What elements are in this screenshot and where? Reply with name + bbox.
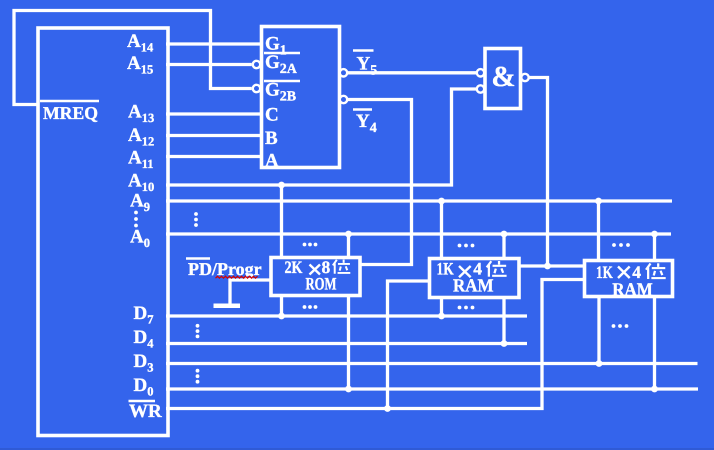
wire Y5 to AND gate upper input [348, 71, 476, 74]
svg-text:C: C [265, 105, 279, 126]
label PD overline [186, 257, 210, 259]
junction A0-RAM2 [651, 231, 658, 238]
wire RAM2 A0 tap [653, 234, 656, 261]
wire RAM2 D0 tap [653, 296, 656, 389]
wire RAM1 D4 tap [502, 297, 505, 344]
RAM1 block [430, 259, 520, 298]
label RAM1 times sign [459, 266, 471, 277]
svg-text:ROM: ROM [306, 274, 337, 294]
wire D4 bus line [166, 342, 527, 345]
label MREQ overline [40, 100, 99, 103]
decoder U2 74LS138 [262, 27, 340, 168]
wire MREQ loop CPU to G2B [14, 11, 252, 105]
bubble Y4 [340, 96, 347, 103]
label RAM2 times sign [618, 267, 630, 279]
svg-text:RAM: RAM [612, 280, 653, 300]
svg-text:2K: 2K [285, 257, 303, 277]
bubble Y5 [340, 69, 347, 76]
wire ROM D0 tap [347, 295, 350, 389]
wire ROM D7 tap [280, 295, 283, 316]
ellipsis above RAM1 [458, 244, 475, 248]
label ROM times sign [310, 265, 321, 275]
wire RAM1 A0 tap [502, 234, 505, 259]
ellipsis below ROM [303, 305, 318, 309]
ellipsis A9-A0 bus [194, 212, 198, 227]
wire A12 to B [166, 134, 262, 137]
ellipsis above ROM [303, 243, 318, 247]
wire A10 line to AND gate lower input [166, 89, 476, 185]
bubble AND in1 [477, 69, 484, 76]
wire ROM A10 tap [280, 185, 283, 258]
ROM block [271, 258, 360, 296]
junction WR-RAM1 [384, 405, 391, 412]
wire A11 to A [166, 155, 262, 158]
svg-text:PD/Progr: PD/Progr [188, 259, 262, 279]
wire WR to RAM2 left pin [166, 280, 584, 409]
svg-text:WR: WR [129, 401, 162, 422]
CPU block [38, 28, 168, 436]
ellipsis A9-A0 inside CPU [134, 211, 138, 228]
junction A9-RAM2 [595, 198, 602, 205]
label RAM2 wei [646, 263, 666, 279]
wire ROM A0 tap [347, 234, 350, 258]
svg-text:A: A [265, 151, 279, 172]
svg-text:B: B [265, 128, 278, 149]
junction D4-RAM1 [501, 340, 508, 347]
junction CS tee [544, 263, 551, 270]
wire RAM2 A9 tap [597, 201, 600, 261]
svg-text:RAM: RAM [453, 276, 494, 296]
wire D0 bus line [166, 387, 698, 390]
wire RAM2 D3 tap [597, 296, 600, 364]
wire PD/Progr to ground [230, 280, 271, 304]
ground bar [214, 304, 241, 309]
bubble AND in2 [477, 85, 484, 92]
wire RAM1 WR pin [388, 281, 430, 409]
label Y4 overline [353, 108, 372, 111]
ellipsis above RAM2 [612, 243, 630, 247]
bottom edge dark strip [0, 448, 714, 450]
junction A0-ROM [345, 231, 352, 238]
wire A14 to G1 [166, 42, 262, 45]
wire AND output to RAM selects [519, 78, 548, 267]
decoder pin label G2B overline [264, 80, 300, 82]
wire RAM1 A9 tap [440, 201, 443, 259]
svg-text:MREQ: MREQ [43, 103, 98, 123]
wire A0 bus line [166, 232, 671, 235]
AND gate U3 [485, 49, 521, 109]
ellipsis below RAM2 [612, 324, 629, 328]
label Y5 overline [353, 49, 374, 52]
junction A9-RAM1 [438, 198, 445, 205]
svg-text:1K: 1K [437, 259, 454, 279]
junction D0-ROM [345, 386, 352, 393]
junction A10-ROM [278, 182, 285, 189]
svg-text:1K: 1K [596, 262, 613, 282]
label RAM1 wei [487, 261, 507, 277]
wire D3 bus line [166, 362, 698, 365]
junction D7-ROM [278, 313, 285, 320]
svg-text:&: & [491, 61, 515, 93]
junction D3-RAM2 [596, 360, 603, 367]
red wavy underline [216, 276, 258, 278]
junction D0-RAM2 [651, 386, 658, 393]
junction D7-RAM1 [438, 313, 445, 320]
svg-text:4: 4 [632, 262, 641, 282]
wire A9 bus line [166, 199, 672, 202]
decoder pin label G2A overline [264, 52, 300, 54]
ellipsis below RAM1 [458, 306, 475, 310]
ellipsis D7-D4 bus [196, 324, 200, 338]
label ROM wei [333, 260, 350, 274]
RAM2 block [585, 261, 673, 297]
bubble G2A [253, 61, 260, 68]
bubble AND out [521, 74, 528, 81]
ellipsis D3-D0 bus [196, 369, 200, 384]
wire A13 to C [166, 112, 262, 115]
wire D7 bus line [166, 314, 527, 317]
wire Y4 to ROM select [348, 100, 412, 265]
bubble G2B [253, 85, 260, 92]
wire RAM1 CS to RAM2 CS [548, 264, 585, 267]
pin label WR overline [129, 400, 156, 403]
junction A0-RAM1 [501, 231, 508, 238]
wire A15 to G2A bubble [166, 63, 252, 66]
wire RAM1 D7 tap [440, 297, 443, 316]
